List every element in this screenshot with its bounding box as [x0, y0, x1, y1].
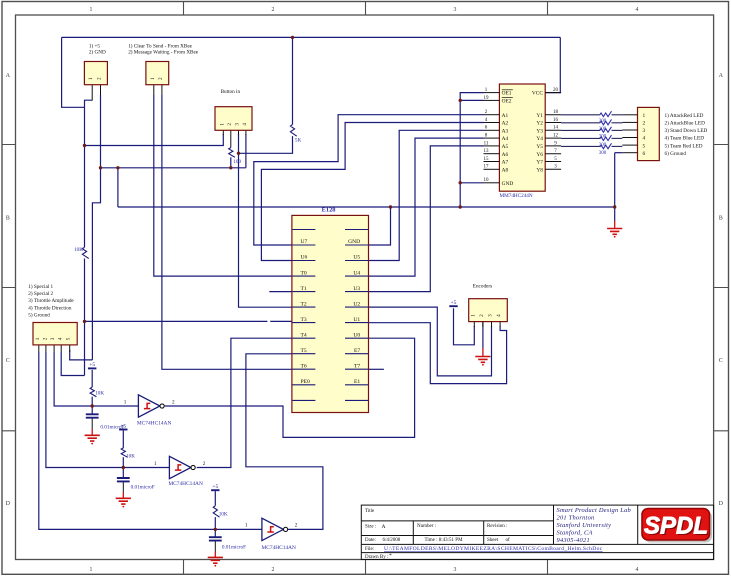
wire +5 top rail	[62, 36, 561, 38]
wire 244 GND link	[460, 182, 483, 184]
connector P2 XBee header	[146, 62, 169, 85]
junction inverter3 input	[214, 528, 217, 531]
svg-text:Size :: Size :	[365, 524, 376, 529]
svg-text:Number :: Number :	[417, 524, 436, 529]
svg-text:MM74HC244N: MM74HC244N	[500, 193, 533, 199]
svg-text:Sheet: Sheet	[487, 538, 499, 543]
svg-text:Title: Title	[365, 509, 375, 514]
svg-text:4) Throttle Direction: 4) Throttle Direction	[28, 304, 72, 311]
svg-text:2: 2	[172, 399, 175, 405]
junction E128 GND / GND rail	[389, 205, 392, 208]
pin stub P4 pin4	[60, 345, 62, 352]
svg-text:Y5: Y5	[536, 144, 543, 150]
svg-text:Y6: Y6	[536, 152, 543, 158]
svg-text:OE2: OE2	[502, 99, 512, 105]
svg-text:0.01microF: 0.01microF	[222, 545, 246, 551]
inverter U5A MC74HC14AN	[262, 518, 297, 551]
svg-text:T6: T6	[301, 363, 307, 369]
svg-text:T7: T7	[354, 363, 360, 369]
svg-text:10K: 10K	[219, 511, 228, 517]
ground stem G4	[122, 493, 124, 499]
svg-text:1: 1	[245, 523, 248, 529]
wire E128 U2 to encoder pin3	[369, 307, 492, 376]
svg-text:Date:: Date:	[365, 538, 376, 543]
svg-text:MC74HC14AN: MC74HC14AN	[262, 545, 297, 551]
buffer U1 MM74HC244N	[484, 84, 562, 191]
junction net A / T3 wire	[83, 320, 86, 323]
svg-text:Revision :: Revision :	[487, 524, 507, 529]
resistor R10 300	[600, 135, 612, 140]
svg-text:4: 4	[496, 314, 502, 317]
wire inverter2 output to E128 T4	[197, 338, 292, 467]
wire GND horizontal to button pin4	[101, 167, 246, 169]
junction 5K / button pin3	[237, 152, 240, 155]
svg-text:Y3: Y3	[536, 128, 543, 134]
svg-text:4) Team Blue LED: 4) Team Blue LED	[665, 135, 705, 142]
svg-text:3: 3	[50, 337, 56, 340]
svg-text:Y7: Y7	[536, 160, 543, 166]
svg-text:1: 1	[88, 77, 94, 80]
svg-text:3: 3	[454, 567, 457, 573]
wire button pin1 to net A	[85, 134, 224, 146]
svg-text:Encoders: Encoders	[473, 283, 492, 289]
svg-text:Smart Product Design Lab: Smart Product Design Lab	[557, 507, 631, 514]
wire C1 to ground	[91, 418, 93, 430]
inverter U4A MC74HC14AN	[168, 456, 203, 487]
svg-text:14: 14	[553, 126, 559, 131]
svg-text:Y1: Y1	[536, 113, 543, 119]
wire 244 OE1/OE2/GND tie down	[460, 93, 483, 207]
junction inverter1 input	[91, 404, 94, 407]
svg-text:100: 100	[233, 159, 241, 165]
svg-text:3: 3	[642, 128, 645, 134]
svg-text:5: 5	[642, 143, 645, 149]
svg-text:+5: +5	[451, 300, 457, 306]
svg-text:1: 1	[642, 113, 645, 119]
resistor R3 10K inline	[82, 247, 88, 258]
svg-text:+5: +5	[212, 484, 218, 490]
resistor R4 10K	[90, 387, 96, 397]
svg-text:Drawn By :: Drawn By :	[365, 555, 388, 560]
wire button pin3 to E128 T2	[239, 134, 292, 307]
wire P4 pin1 to inverter3 input	[39, 352, 262, 529]
svg-text:5K: 5K	[295, 138, 302, 144]
svg-text:5: 5	[66, 337, 72, 340]
svg-text:2: 2	[272, 567, 275, 573]
svg-text:19: 19	[484, 96, 490, 101]
wire +5 bar to 10K R5	[122, 431, 124, 448]
svg-text:6: 6	[642, 151, 645, 157]
junction OE2 tie	[459, 99, 462, 102]
svg-text:MC74HC14AN: MC74HC14AN	[168, 481, 203, 487]
pin stub P5 pin3	[491, 322, 493, 327]
svg-text:U7: U7	[301, 239, 308, 245]
wire +5 to 10K R4	[91, 370, 93, 387]
wire C3 to ground	[214, 541, 216, 552]
wire P4 pin5 ground link	[70, 350, 93, 360]
wire 244 VCC to +5 rail	[545, 37, 560, 92]
svg-text:T0: T0	[301, 270, 307, 276]
wire C2 to ground	[122, 482, 124, 493]
connector P3 button header	[215, 107, 252, 131]
svg-text:Y2: Y2	[536, 121, 543, 127]
wire button pin4 drop	[245, 134, 247, 168]
wire E128 U6 to 244 A2	[261, 123, 483, 261]
resistor R6 10K	[213, 506, 219, 517]
connector P5 encoders header	[469, 299, 508, 322]
svg-text:Time : 8:43:51 PM: Time : 8:43:51 PM	[425, 538, 464, 543]
svg-text:2: 2	[97, 77, 103, 80]
svg-text:VCC: VCC	[532, 91, 543, 97]
wire 244 Y2 to R8	[561, 122, 600, 124]
wire encoder pin2 ground drop	[482, 322, 484, 348]
inverter U3A MC74HC14AN	[137, 395, 172, 427]
junction inverter2 input	[122, 466, 125, 469]
pin stub P5 pin4	[499, 322, 501, 327]
svg-text:U4: U4	[353, 270, 360, 276]
svg-text:2: 2	[42, 337, 48, 340]
junction P1 pin2 GND	[99, 166, 102, 169]
svg-text:T3: T3	[301, 317, 307, 323]
svg-text:1: 1	[470, 314, 476, 317]
wire inverter1 output to E128 U0	[165, 338, 415, 437]
pin stub P2 pin2	[161, 85, 163, 95]
power +5 port PW3	[211, 484, 219, 490]
wire 100ohm bottom lead	[230, 157, 232, 168]
resistor R5 10K	[121, 448, 127, 457]
wire R5 to inverter2 input	[122, 457, 124, 467]
svg-text:5) Team Red LED: 5) Team Red LED	[665, 142, 703, 149]
svg-text:6) Ground: 6) Ground	[665, 150, 687, 157]
logo SPDL	[642, 509, 712, 543]
svg-text:A2: A2	[502, 121, 509, 127]
svg-text:15: 15	[484, 157, 490, 162]
svg-text:2: 2	[272, 7, 275, 13]
capacitor C2	[117, 478, 130, 481]
svg-text:C: C	[6, 358, 10, 364]
ground G3	[85, 435, 100, 444]
wire GND branch B to P4 pin5	[92, 168, 100, 360]
wire E128 U3 to 244 A5	[369, 146, 484, 292]
svg-text:201 Thornton: 201 Thornton	[557, 514, 595, 521]
wire P1 pin2 GND drop	[100, 95, 102, 168]
pin stub button pin2	[230, 130, 232, 147]
wire net A to E128 T3 (right part)	[270, 320, 292, 322]
wire 244 Y3 to R9	[561, 129, 600, 131]
ground stem G5	[214, 552, 216, 558]
wire P1 pin1 jog	[85, 100, 93, 107]
wire P2 pin1 to E128 T0	[154, 95, 292, 276]
wire P6 pin6 ground drop	[614, 153, 616, 221]
resistor R11 300	[600, 143, 612, 148]
svg-text:3: 3	[454, 7, 457, 13]
svg-text:T4: T4	[301, 332, 307, 338]
resistor R9 300	[600, 127, 612, 132]
ground G5	[208, 557, 223, 566]
svg-text:PE0: PE0	[301, 379, 311, 385]
svg-text:A4: A4	[502, 136, 509, 142]
wire junction to C1	[91, 406, 93, 414]
junction 100ohm / GND	[229, 166, 232, 169]
svg-text:2: 2	[295, 523, 298, 529]
svg-text:File:: File:	[365, 547, 374, 552]
svg-text:Stanford, CA: Stanford, CA	[557, 530, 593, 537]
power +5 port PW1	[88, 362, 96, 368]
svg-text:11: 11	[484, 141, 489, 146]
wire R10 to P6 pin 4	[612, 137, 623, 139]
wire GND long horizontal	[118, 206, 615, 208]
wire E128 U4 to 244 A4	[369, 138, 484, 276]
svg-text:2: 2	[642, 121, 645, 127]
wire R9 to P6 pin 3	[612, 129, 623, 131]
svg-text:T2: T2	[301, 301, 307, 307]
wire GND tap down	[117, 168, 119, 207]
capacitor C3	[209, 537, 222, 540]
svg-text:5) Ground: 5) Ground	[28, 312, 50, 319]
svg-text:A7: A7	[502, 160, 509, 166]
svg-text:3) Stand Down LED: 3) Stand Down LED	[665, 127, 708, 134]
wire junction to C2	[122, 468, 124, 479]
svg-text:6/4/2008: 6/4/2008	[383, 538, 401, 543]
wire R4 to inverter1 input	[91, 397, 93, 406]
wire 244 Y4 to R10	[561, 137, 600, 139]
ground stem G1	[614, 221, 616, 229]
svg-text:2) AttackBlue LED: 2) AttackBlue LED	[665, 120, 706, 127]
svg-text:1: 1	[219, 123, 225, 126]
svg-text:20: 20	[553, 88, 559, 93]
svg-text:2) Special 2: 2) Special 2	[28, 290, 53, 297]
svg-text:3: 3	[235, 123, 241, 126]
wire R6 to inverter3 input	[214, 517, 216, 529]
microcontroller U2 E128	[292, 215, 369, 412]
svg-text:GND: GND	[502, 181, 514, 187]
junction GND rail / G1	[613, 205, 616, 208]
wire inverter3 output to E128 T5	[246, 354, 323, 530]
ground stem G2	[482, 348, 484, 357]
svg-text:D: D	[6, 501, 10, 507]
svg-text:+5: +5	[89, 362, 95, 368]
svg-text:16: 16	[553, 118, 559, 123]
svg-text:T1: T1	[301, 286, 307, 292]
svg-text:18: 18	[553, 110, 559, 115]
svg-text:E128: E128	[322, 206, 336, 213]
wire P6 pin6 ground link	[615, 152, 623, 154]
svg-text:2: 2	[203, 461, 206, 467]
wire P4 pin4 to net A	[61, 352, 84, 376]
svg-text:E7: E7	[354, 348, 360, 354]
junction OE tie / GND rail	[459, 205, 462, 208]
wire net A vertical upper	[84, 107, 86, 247]
wire 5K top lead	[292, 37, 294, 124]
svg-text:of: of	[506, 538, 511, 543]
svg-text:D: D	[719, 501, 723, 507]
svg-text:4: 4	[57, 337, 63, 340]
svg-text:GND: GND	[348, 239, 360, 245]
svg-text:17: 17	[484, 165, 490, 170]
svg-text:U0: U0	[353, 332, 360, 338]
pin stub P4 pin5	[69, 345, 71, 352]
svg-text:A6: A6	[502, 152, 509, 158]
svg-text:U2: U2	[353, 301, 360, 307]
svg-text:A1: A1	[502, 113, 509, 119]
svg-text:U:\TEAMFOLDERS\MELODYMIKEEZRA\: U:\TEAMFOLDERS\MELODYMIKEEZRA\SCHEMATICS…	[384, 546, 603, 552]
svg-text:T5: T5	[301, 348, 307, 354]
capacitor C1	[86, 414, 99, 417]
wire P4 pin3 to inverter1 input	[54, 352, 138, 406]
svg-text:1: 1	[90, 567, 93, 573]
junction GND tap	[116, 166, 119, 169]
svg-text:C: C	[719, 358, 723, 364]
svg-text:10: 10	[484, 178, 490, 183]
svg-text:U1: U1	[353, 317, 360, 323]
svg-text:2) Message Waiting - From XBee: 2) Message Waiting - From XBee	[128, 48, 199, 55]
svg-text:SPDL: SPDL	[644, 512, 708, 539]
svg-text:10K: 10K	[74, 247, 83, 253]
svg-text:Y4: Y4	[536, 136, 543, 142]
svg-text:*: *	[389, 553, 392, 559]
resistor R2 100	[229, 148, 235, 158]
pin stub P1 pin1	[91, 85, 93, 101]
pin stub P4 pin1	[38, 345, 40, 352]
svg-text:OE1: OE1	[502, 91, 512, 97]
svg-text:3) Throttle Amplitude: 3) Throttle Amplitude	[28, 297, 74, 304]
svg-text:2) GND: 2) GND	[89, 48, 106, 55]
wire 244 Y1 to R7	[561, 114, 600, 116]
wire E128 U5 to 244 A3	[369, 130, 484, 260]
wire P2 pin2 to E128 T6	[162, 95, 292, 369]
svg-text:E1: E1	[354, 379, 360, 385]
svg-text:U5: U5	[353, 255, 360, 261]
svg-text:3: 3	[488, 314, 494, 317]
pin stub P1 pin2	[100, 85, 102, 95]
power +5 port PW4 encoders	[449, 300, 457, 306]
pin stub button pin4	[245, 130, 247, 135]
wire junction to C3	[214, 529, 216, 537]
svg-text:1: 1	[35, 337, 41, 340]
svg-text:0.01microF: 0.01microF	[131, 484, 155, 490]
wire R11 to P6 pin 5	[612, 145, 623, 147]
svg-text:Button in: Button in	[221, 89, 241, 95]
svg-text:10K: 10K	[126, 453, 135, 459]
svg-text:A5: A5	[502, 144, 509, 150]
pin stub P5 pin2	[482, 322, 484, 327]
pin stub P5 pin1	[473, 322, 475, 327]
wire R8 to P6 pin 2	[612, 122, 623, 124]
wire net A to E128 T3 (left part)	[85, 320, 268, 322]
wire E128 U1 to encoder pin4	[369, 323, 507, 384]
svg-text:U3: U3	[353, 286, 360, 292]
pin stub button pin1	[222, 130, 224, 135]
svg-text:4: 4	[636, 7, 639, 13]
svg-text:12: 12	[553, 134, 559, 139]
svg-text:2: 2	[479, 314, 485, 317]
svg-text:4: 4	[642, 136, 645, 142]
connector P6 LED header	[622, 107, 659, 160]
wire E128 T1 stub	[269, 291, 292, 293]
svg-text:MC74HC14AN: MC74HC14AN	[137, 420, 172, 426]
svg-text:1: 1	[150, 77, 156, 80]
svg-text:10K: 10K	[95, 391, 104, 397]
svg-text:U6: U6	[301, 255, 308, 261]
svg-text:4: 4	[636, 567, 639, 573]
svg-text:1) Special 1: 1) Special 1	[28, 283, 53, 290]
svg-text:13: 13	[484, 149, 490, 154]
svg-text:A: A	[382, 524, 386, 530]
svg-text:2: 2	[158, 77, 164, 80]
pin stub P2 pin1	[153, 85, 155, 95]
resistor R1 5K	[290, 125, 296, 137]
wire 5K bottom to button pin3	[239, 136, 293, 153]
svg-text:1: 1	[124, 399, 127, 405]
svg-text:1: 1	[90, 7, 93, 13]
svg-text:1: 1	[154, 461, 157, 467]
junction net A / button pin1	[83, 144, 86, 147]
svg-text:Y8: Y8	[536, 167, 543, 173]
wire P4 pin2 to inverter2 input	[46, 352, 169, 468]
ground stem G3	[91, 430, 93, 436]
pin stub P4 pin2	[45, 345, 47, 352]
svg-text:Stanford University: Stanford University	[557, 522, 612, 529]
title block frame	[361, 505, 713, 559]
svg-text:4: 4	[242, 123, 248, 126]
svg-text:A3: A3	[502, 128, 509, 134]
pin stub button pin3	[238, 130, 240, 135]
svg-text:2: 2	[227, 123, 233, 126]
junction +5 rail / 5K	[291, 36, 294, 39]
wire R7 to P6 pin 1	[612, 114, 623, 116]
svg-text:94305-4021: 94305-4021	[557, 537, 590, 544]
resistor R8 300	[600, 119, 612, 124]
wire E128 GND to GND rail	[369, 207, 391, 245]
svg-text:B: B	[719, 216, 723, 222]
ground G4	[116, 498, 131, 507]
svg-text:A8: A8	[502, 167, 509, 173]
ground G1 LED connector	[607, 229, 622, 238]
wire +5 to encoder pin1	[454, 308, 475, 345]
svg-text:300: 300	[599, 151, 607, 156]
svg-text:B: B	[6, 216, 10, 222]
power +5 port PW2	[119, 424, 127, 430]
wire 244 OE2 link	[460, 99, 483, 101]
ground G2 encoder	[475, 357, 490, 366]
wire net A vertical lower	[84, 259, 86, 376]
wire E128 T7 stub	[369, 368, 384, 370]
connector P1 power header	[84, 62, 107, 85]
wire E128 U7 to 244 A1	[254, 115, 484, 245]
wire +5 rail left drop	[62, 37, 85, 107]
connector P4 control header	[33, 323, 77, 345]
junction 244 GND tie	[459, 181, 462, 184]
wire +5 bar to 10K R6	[214, 491, 216, 506]
pin stub P4 pin3	[53, 345, 55, 352]
svg-text:1) AttackRed LED: 1) AttackRed LED	[665, 112, 704, 119]
wire 244 Y5 to R11	[561, 145, 600, 147]
resistor R7 300	[600, 111, 612, 116]
